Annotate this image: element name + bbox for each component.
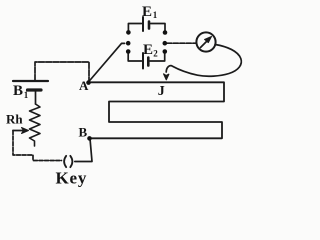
svg-text:2: 2 bbox=[153, 49, 158, 59]
svg-text:1: 1 bbox=[24, 90, 29, 100]
svg-text:Rh: Rh bbox=[6, 112, 23, 127]
svg-text:B: B bbox=[79, 125, 88, 140]
svg-text:E: E bbox=[142, 4, 152, 20]
svg-text:J: J bbox=[158, 84, 165, 99]
svg-text:1: 1 bbox=[153, 10, 158, 20]
svg-text:E: E bbox=[143, 42, 153, 58]
svg-text:Key: Key bbox=[56, 169, 88, 188]
svg-text:B: B bbox=[13, 83, 23, 99]
svg-text:A: A bbox=[79, 78, 89, 93]
